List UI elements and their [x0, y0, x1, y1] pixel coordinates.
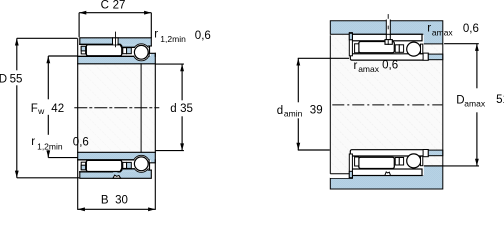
bearing envelope white upper [349, 35, 424, 60]
inner ring shoulder upper right [421, 44, 423, 54]
shaft washer upper right [423, 53, 428, 60]
svg-text:1,2min: 1,2min [160, 34, 186, 44]
sleeve lower [350, 150, 424, 156]
grey base [330, 34, 442, 175]
D_amax [476, 44, 478, 89]
upper lip box [81, 46, 85, 54]
upper outer ring band [80, 38, 152, 45]
svg-text:C: C [101, 0, 109, 12]
inner ring left face line [77, 39, 79, 210]
cage boxes upper [395, 45, 399, 53]
upper ball recess [133, 44, 150, 61]
arrow dim C left [79, 11, 86, 15]
arrow dim B left [78, 207, 85, 211]
lower sleeve [78, 152, 156, 160]
arrow dim Fw top [46, 56, 50, 63]
LEFT DRAWING [75, 32, 159, 209]
outer band lower outline [352, 169, 422, 176]
upper ball [134, 45, 148, 59]
svg-text:42: 42 [51, 103, 64, 115]
arrow dim B right [148, 207, 155, 211]
lower lip box [81, 162, 85, 170]
svg-text:0,6: 0,6 [463, 23, 479, 35]
roller lower [359, 157, 395, 168]
dim B [78, 208, 156, 210]
inner ring split line [140, 64, 142, 153]
lower cage boxes [123, 162, 127, 168]
svg-text:30: 30 [115, 194, 128, 206]
oil hole right [386, 20, 390, 39]
svg-text:F: F [31, 103, 38, 115]
lower ball recess [133, 155, 150, 172]
lower needle roller [86, 160, 122, 171]
upper cage boxes [123, 48, 127, 54]
arrow dim D_amax bottom [475, 159, 479, 166]
inner ring right face line [154, 53, 156, 209]
svg-text:amin: amin [284, 109, 303, 119]
lube notch lower [113, 175, 121, 178]
arrow dim D bottom [15, 171, 19, 178]
dim C [79, 12, 151, 14]
svg-text:0,6: 0,6 [382, 59, 398, 71]
lower outer ring band [80, 172, 152, 179]
sleeve upper [350, 54, 424, 60]
svg-text:r: r [427, 23, 431, 35]
svg-text:0,6: 0,6 [195, 30, 211, 42]
svg-text:amax: amax [358, 64, 380, 74]
svg-text:r: r [154, 28, 158, 40]
svg-text:51: 51 [496, 94, 504, 106]
outer ring outlines lower [80, 169, 152, 179]
left block edge [329, 35, 331, 174]
svg-text:d: d [170, 103, 176, 115]
arrow dim D top [15, 38, 19, 45]
svg-text:27: 27 [113, 0, 126, 12]
svg-text:amax: amax [432, 28, 454, 38]
svg-text:d: d [277, 105, 283, 117]
centerline right [332, 104, 442, 106]
dim Fw [47, 56, 49, 99]
sleeve outlines upper [78, 53, 156, 64]
arrow dim d bottom [180, 143, 184, 150]
sleeve outlines lower [78, 152, 156, 163]
lower ball [134, 157, 148, 171]
svg-text:amax: amax [464, 99, 486, 109]
shaft washer lower right [423, 150, 428, 157]
dim d [181, 64, 183, 100]
left bar upper [349, 33, 352, 56]
left bar lower [349, 154, 352, 178]
outer band upper outline [352, 34, 422, 41]
svg-text:1,2min: 1,2min [37, 142, 63, 152]
bearing envelope white lower [349, 150, 424, 176]
svg-text:r: r [31, 136, 35, 148]
upper sleeve (inner ring) [78, 56, 156, 64]
lip lower [355, 157, 359, 166]
d_amin [297, 58, 299, 102]
arrow dim D_amax top [475, 44, 479, 51]
arrow dim d top [180, 64, 184, 71]
svg-text:w: w [37, 106, 45, 116]
housing bottom blue [330, 166, 443, 189]
centerline left [75, 107, 159, 109]
svg-text:D: D [0, 73, 7, 85]
svg-text:55: 55 [10, 73, 23, 85]
roller upper [359, 42, 395, 53]
lube notch lower right [385, 172, 391, 176]
dim D [16, 38, 18, 70]
lip upper [355, 44, 359, 53]
arrow dim d_amin top [296, 58, 300, 65]
arrow dim Fw bottom [46, 150, 50, 157]
lower ball cage bar [149, 163, 151, 170]
housing block right edge [442, 44, 444, 166]
white gap left bottom [330, 174, 349, 178]
housing top blue [330, 21, 443, 44]
cage boxes lower [395, 158, 399, 166]
svg-text:39: 39 [310, 104, 323, 116]
bore hatch area [78, 64, 156, 153]
arrow dim C right [144, 11, 151, 15]
svg-text:r: r [354, 60, 358, 72]
svg-text:B: B [101, 194, 109, 206]
svg-text:35: 35 [180, 103, 193, 115]
upper ball cage bar [149, 46, 151, 53]
inner ring shoulder lower right [421, 156, 423, 166]
arrow dim d_amin bottom [296, 143, 300, 150]
lube hole upper [113, 37, 119, 44]
svg-text:0,6: 0,6 [73, 136, 89, 148]
upper needle roller [86, 45, 122, 56]
outer ring outlines upper [80, 38, 152, 48]
RIGHT DRAWING [330, 14, 443, 189]
LEFT DIMENSIONS [17, 13, 184, 210]
RIGHT DIMENSIONS [298, 44, 479, 166]
ball upper [407, 42, 421, 56]
ball lower [407, 154, 421, 168]
